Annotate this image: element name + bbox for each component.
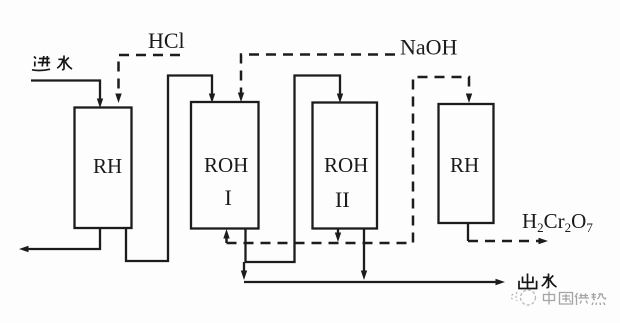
arrow: outlet to right <box>496 279 506 285</box>
dashed wire: H2Cr2O7 product line <box>468 240 540 243</box>
svg-text:NaOH: NaOH <box>400 35 458 60</box>
watermark logo circle <box>512 290 536 305</box>
dashed wire: ROH-II bottom stub <box>337 229 339 235</box>
label 出水 (outlet water) <box>519 274 557 289</box>
dashed arrow: regenerant up into ROH-I bottom <box>223 229 229 239</box>
wire: ROH-I outlet down to outlet header <box>243 262 245 272</box>
watermark text 中国供热 <box>544 292 606 306</box>
arrow: feed into RH1 top <box>97 99 103 109</box>
column ROH II <box>313 103 378 229</box>
wire: ROH-II outlet down to outlet header <box>363 229 365 273</box>
wire: feed water inlet line <box>31 81 100 103</box>
svg-text:ROH: ROH <box>324 153 368 177</box>
column ROH I <box>191 102 259 229</box>
svg-text:I: I <box>225 185 232 210</box>
svg-text:H2Cr2O7: H2Cr2O7 <box>522 209 593 235</box>
dashed wire: ROH-I bottom regenerant elbow <box>225 236 228 243</box>
svg-text:RH: RH <box>450 153 479 177</box>
dashed wire: HCl dosing line <box>119 55 181 96</box>
wire: treated water outlet header <box>244 281 497 283</box>
label 进水 (feed water) <box>32 56 72 71</box>
wire: RH4 bottom stub <box>467 223 469 241</box>
arrow: regenerant into RH4 top <box>466 94 472 104</box>
arrow: HCl into RH1 top <box>115 94 121 104</box>
wire: RH1 bottom drain <box>26 228 100 249</box>
arrow: down onto outlet header <box>361 271 367 281</box>
svg-text:ROH: ROH <box>204 153 248 177</box>
arrow: ROH-II bottom down to header <box>335 233 341 243</box>
arrow: down onto outlet header <box>241 271 247 281</box>
arrow: into ROH-I top <box>209 94 215 104</box>
arrow: into ROH-II top <box>337 94 343 104</box>
arrow: product out right <box>539 238 549 244</box>
wire: ROH-I outlet to ROH-II top <box>246 76 341 263</box>
wire: RH1 outlet to ROH-I top <box>126 76 212 262</box>
column RH4 <box>439 104 494 223</box>
svg-text:HCl: HCl <box>148 28 185 53</box>
dashed wire: regenerant bottom header <box>227 77 470 243</box>
dashed wire: NaOH dosing line <box>241 55 395 96</box>
arrow: drain to waste (left) <box>19 246 29 252</box>
svg-text:II: II <box>335 187 350 212</box>
arrow: NaOH into ROH-I top <box>238 93 244 103</box>
column RH1 <box>75 108 132 229</box>
svg-text:RH: RH <box>93 154 122 178</box>
